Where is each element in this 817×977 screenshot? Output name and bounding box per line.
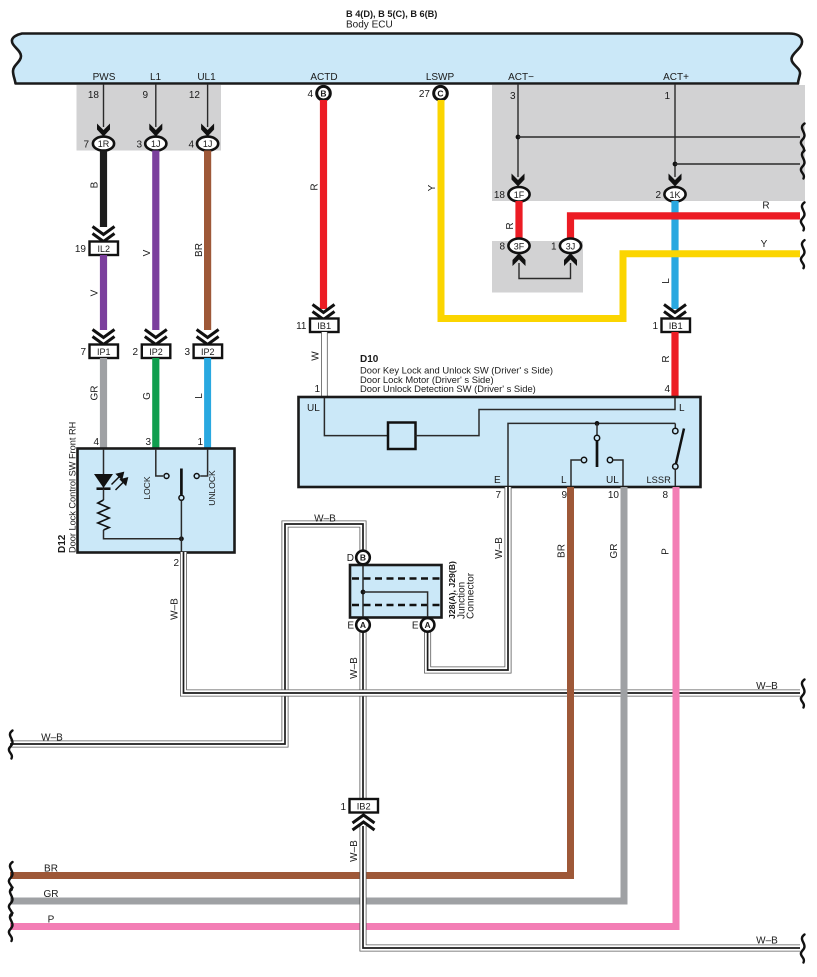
break symbol right y137 [801,124,805,152]
svg-text:E: E [412,621,419,632]
junction terminal circle A left [356,618,370,632]
svg-text:R: R [661,355,672,362]
svg-text:9: 9 [142,90,148,101]
svg-text:LSSR: LSSR [647,475,672,485]
svg-text:LSWP: LSWP [426,72,455,83]
wire W-B left break to junction B [10,524,363,744]
svg-text:IL2: IL2 [97,244,110,254]
svg-text:9: 9 [561,490,567,501]
D12 switch blade [180,469,183,495]
junction box IB2 [350,799,379,813]
shield gray box 3F 3J [492,241,583,293]
svg-text:Body ECU: Body ECU [346,20,393,31]
svg-text:W–B: W–B [349,840,360,862]
wire R red IB1 to D10 pin4 [671,332,678,397]
D12 resistor to common wire [104,530,182,539]
junction box IP1 [90,345,119,359]
double chevron into IB1 11 [313,305,335,320]
component D12 box [78,449,235,553]
break symbol left P [9,913,13,941]
svg-text:B: B [320,88,326,98]
svg-text:W–B: W–B [170,598,181,620]
svg-text:R: R [310,183,321,190]
svg-text:IB2: IB2 [357,801,371,811]
svg-text:1R: 1R [98,139,110,149]
wire L blue 1K to IB1 [671,201,678,309]
svg-text:L: L [561,475,567,486]
junction box IP2 second [194,345,223,359]
wire band pin 1 to 1K [674,84,676,177]
D12 LED triangle [94,474,113,488]
wire R red 1F to 3F [515,201,522,239]
svg-text:P: P [48,915,55,926]
wire W-B junction A to IB2 [360,632,367,801]
wire W-B IB2 to bottom right break [363,826,800,948]
svg-text:LOCK: LOCK [142,476,152,499]
junction terminal circle B [356,551,370,565]
node dot ACT- branch [516,135,521,140]
svg-text:3: 3 [145,437,151,448]
connector oval 1R [93,137,114,151]
svg-text:L: L [194,393,205,399]
junction box IB1 11 [310,319,339,333]
wire ACT- branch to right break [518,136,800,138]
svg-text:7: 7 [83,139,89,150]
svg-text:19: 19 [75,244,87,255]
Body ECU band [12,34,802,84]
connector oval 3J [560,239,581,254]
wire L blue IP2 to D12 pin1 [204,358,211,449]
junction box IL2 [90,242,119,256]
svg-text:2: 2 [173,558,179,569]
D10 switch pivot circle [594,435,599,440]
svg-text:B 4(D), B 5(C), B 6(B): B 4(D), B 5(C), B 6(B) [346,9,437,19]
svg-text:UL: UL [307,403,320,414]
svg-text:27: 27 [419,89,431,100]
wire B black 1R to IL2 [100,151,107,228]
svg-text:3: 3 [184,347,190,358]
svg-text:W–B: W–B [494,537,505,559]
svg-text:4: 4 [93,437,99,448]
svg-text:E: E [347,621,354,632]
svg-text:V: V [90,289,101,296]
svg-text:W–B: W–B [349,657,360,679]
D10 switch common stub [596,423,598,435]
svg-text:W–B: W–B [41,733,63,744]
D10 LSSR wire corner [674,423,676,428]
svg-text:ACT+: ACT+ [663,72,689,83]
break symbol left BR [9,862,13,890]
svg-text:R: R [505,222,516,229]
D10 wire E rail [508,423,675,486]
D10 LSSR wire to pin8 [674,469,676,486]
svg-text:GR: GR [609,544,620,559]
connector oval 1J [145,137,166,151]
wire W white IB1 to D10 pin1 [321,332,328,397]
break symbol right yellow [801,240,805,268]
svg-text:L: L [661,278,672,284]
svg-text:UNLOCK: UNLOCK [207,470,217,506]
svg-text:GR: GR [44,889,59,900]
wire BR brown D10 pin9 to left break [10,487,571,876]
svg-text:L1: L1 [150,72,162,83]
double chevron into IP2 second [197,330,219,345]
wire R red 3J to right break [571,216,801,239]
wire R red ACTD B to IB1 [320,100,327,309]
svg-text:E: E [494,475,501,486]
double chevron into IP1 [93,330,115,345]
svg-text:1: 1 [551,242,557,253]
break symbol right y164 [801,151,805,179]
D10 L contact wire to pin9 [571,460,581,486]
arrow up into 3J [564,253,577,266]
shield gray box right [492,85,805,201]
svg-text:A: A [360,620,366,630]
wire band pin 9 to 1J [155,84,157,127]
svg-text:IB1: IB1 [317,321,331,331]
D10 L contact circle [581,457,586,462]
wire G green IP2 to D12 pin3 [152,358,159,449]
svg-text:L: L [679,403,685,414]
D12 LOCK feed wire [156,449,163,476]
double chevron into IB1 1 [664,305,686,320]
svg-text:8: 8 [499,242,505,253]
svg-text:1J: 1J [151,139,161,149]
D10 LSSR blade [676,429,684,464]
svg-text:3J: 3J [566,241,576,251]
svg-text:IB1: IB1 [669,321,683,331]
wire Y yellow LSWP path [441,100,800,319]
svg-text:IP1: IP1 [97,347,111,357]
D10 wire pin1 to motor [324,398,388,436]
D10 wire motor to pin4 [416,398,676,436]
wire P pink D10 pin8 to left break [10,487,676,927]
svg-text:ACTD: ACTD [310,72,337,83]
svg-text:2: 2 [132,347,138,358]
D12 node dot common [179,536,184,541]
D12 LED anode wire [103,449,105,474]
junction dashed line lower [352,604,440,606]
svg-text:10: 10 [608,490,620,501]
svg-text:3: 3 [136,139,142,150]
node dot ACT+ branch [673,162,678,167]
svg-text:V: V [142,249,153,256]
wire V violet IL2 to IP1 [100,255,107,330]
arrow into 1R [97,124,110,137]
connector oval 1K [664,187,685,202]
svg-text:ACT−: ACT− [508,72,534,83]
svg-text:Y: Y [427,184,438,191]
svg-text:D10: D10 [360,354,379,365]
svg-text:IP2: IP2 [201,347,215,357]
svg-text:4: 4 [188,139,194,150]
svg-text:4: 4 [307,89,313,100]
D12 UNLOCK contact circle [194,474,199,479]
D12 resistor zigzag [98,500,109,530]
svg-text:4: 4 [664,384,670,395]
svg-text:7: 7 [495,490,501,501]
svg-text:BR: BR [194,243,205,257]
svg-text:12: 12 [189,90,201,101]
shield gray box left [77,85,222,151]
D12 UNLOCK feed wire [200,449,207,476]
circle terminal B on ACTD [317,86,331,100]
svg-text:W: W [311,351,322,361]
svg-text:Door Lock Control SW Front RH: Door Lock Control SW Front RH [68,422,78,553]
svg-text:W–B: W–B [756,681,778,692]
svg-text:1: 1 [664,91,670,102]
svg-text:2: 2 [655,190,661,201]
connector oval 1F [508,187,529,202]
svg-text:GR: GR [90,386,101,401]
svg-text:8: 8 [662,490,668,501]
svg-text:1F: 1F [514,190,525,200]
junction box IB1 1 [662,319,691,333]
wire ACT+ branch to right break [675,163,800,165]
connector oval 3F [508,239,529,254]
svg-text:1K: 1K [669,190,680,200]
arrow up into 3F [513,253,526,266]
junction internal wire B to A [362,564,364,618]
svg-text:1: 1 [652,321,658,332]
svg-text:Y: Y [761,239,768,250]
svg-text:3: 3 [510,91,516,102]
svg-text:W–B: W–B [756,936,778,947]
component D10 header [360,354,553,394]
break symbol right W-B bottom [801,935,805,963]
svg-text:1: 1 [314,384,320,395]
break symbol left GR [9,888,13,916]
wire GR gray IP1 to D12 pin4 [100,358,107,449]
junction internal wire branch to A right [363,592,428,618]
D10 node dot switch common [595,421,600,426]
svg-text:UL: UL [606,475,619,486]
svg-text:A: A [425,620,431,630]
svg-text:BR: BR [557,544,568,558]
component D10 box [299,397,701,487]
wire W-B D12 pin2 to right break [184,552,801,693]
junction dashed line upper [352,577,440,579]
circle terminal C on LSWP [434,86,448,100]
svg-text:18: 18 [494,190,506,201]
double chevron into IL2 [93,227,115,242]
svg-text:R: R [762,201,769,212]
arrow into 1F [512,174,525,187]
svg-text:1: 1 [197,437,203,448]
svg-text:1: 1 [340,802,346,813]
D12 switch pivot circle [179,495,184,500]
svg-text:D12: D12 [57,534,68,553]
arrow into 1K [669,174,682,187]
bracket wire 3F to 3J [519,263,571,279]
svg-text:BR: BR [44,864,58,875]
svg-text:UL1: UL1 [197,72,216,83]
D10 LSSR top contact circle [673,428,678,433]
break symbol left W-B [9,731,13,759]
connector oval 1J second [197,137,218,151]
D12 LED cathode bar [97,487,111,490]
D12 pivot to common wire [180,501,182,553]
svg-text:C: C [437,88,443,98]
junction box IP2 [142,345,171,359]
D10 motor square [388,423,416,450]
double chevron up into IB2 [353,815,375,830]
svg-text:3F: 3F [514,241,525,251]
wire V violet 1J to IP2 [152,151,159,331]
double chevron into IP2 [145,330,167,345]
svg-text:1J: 1J [203,139,213,149]
svg-text:Connector: Connector [466,572,477,619]
wire BR brown 1J to IP2 [204,151,211,331]
D12 LED emission arrows [112,473,128,490]
svg-text:11: 11 [296,321,307,332]
wire band pin 12 to 1J [207,84,209,127]
break symbol right red [801,202,805,230]
svg-text:J28(A), J29(B): J28(A), J29(B) [447,561,457,619]
svg-text:IP2: IP2 [149,347,163,357]
D10 UL contact wire to pin10 [613,460,623,486]
svg-text:B: B [90,181,101,188]
junction internal node dot [361,590,366,595]
svg-text:D: D [347,553,354,564]
svg-text:P: P [661,548,672,555]
svg-text:7: 7 [80,347,86,358]
wire band pin 18 to 1R [103,84,105,127]
junction connector box J28 J29 [350,565,442,618]
wire GR gray D10 pin10 to left break [10,487,624,901]
wire band pin 3 to 1F [517,84,519,177]
D10 LSSR bottom contact circle [673,464,678,469]
svg-text:Door Unlock Detection SW (Driv: Door Unlock Detection SW (Driver' s Side… [360,383,536,394]
D12 LED to resistor wire [103,489,105,500]
D10 UL contact circle [607,457,612,462]
D10 switch blade [596,441,599,467]
break symbol right W-B mid [801,680,805,708]
arrow into 1J [149,124,162,137]
junction terminal circle A right [421,618,435,632]
svg-text:PWS: PWS [93,72,116,83]
svg-text:18: 18 [88,90,100,101]
svg-text:W–B: W–B [314,514,336,525]
svg-text:G: G [142,392,153,400]
svg-text:B: B [360,553,366,563]
wire W-B junction A right to D10 pin7 [428,487,508,670]
arrow into 1J second [201,124,214,137]
D12 LOCK contact circle [164,474,169,479]
